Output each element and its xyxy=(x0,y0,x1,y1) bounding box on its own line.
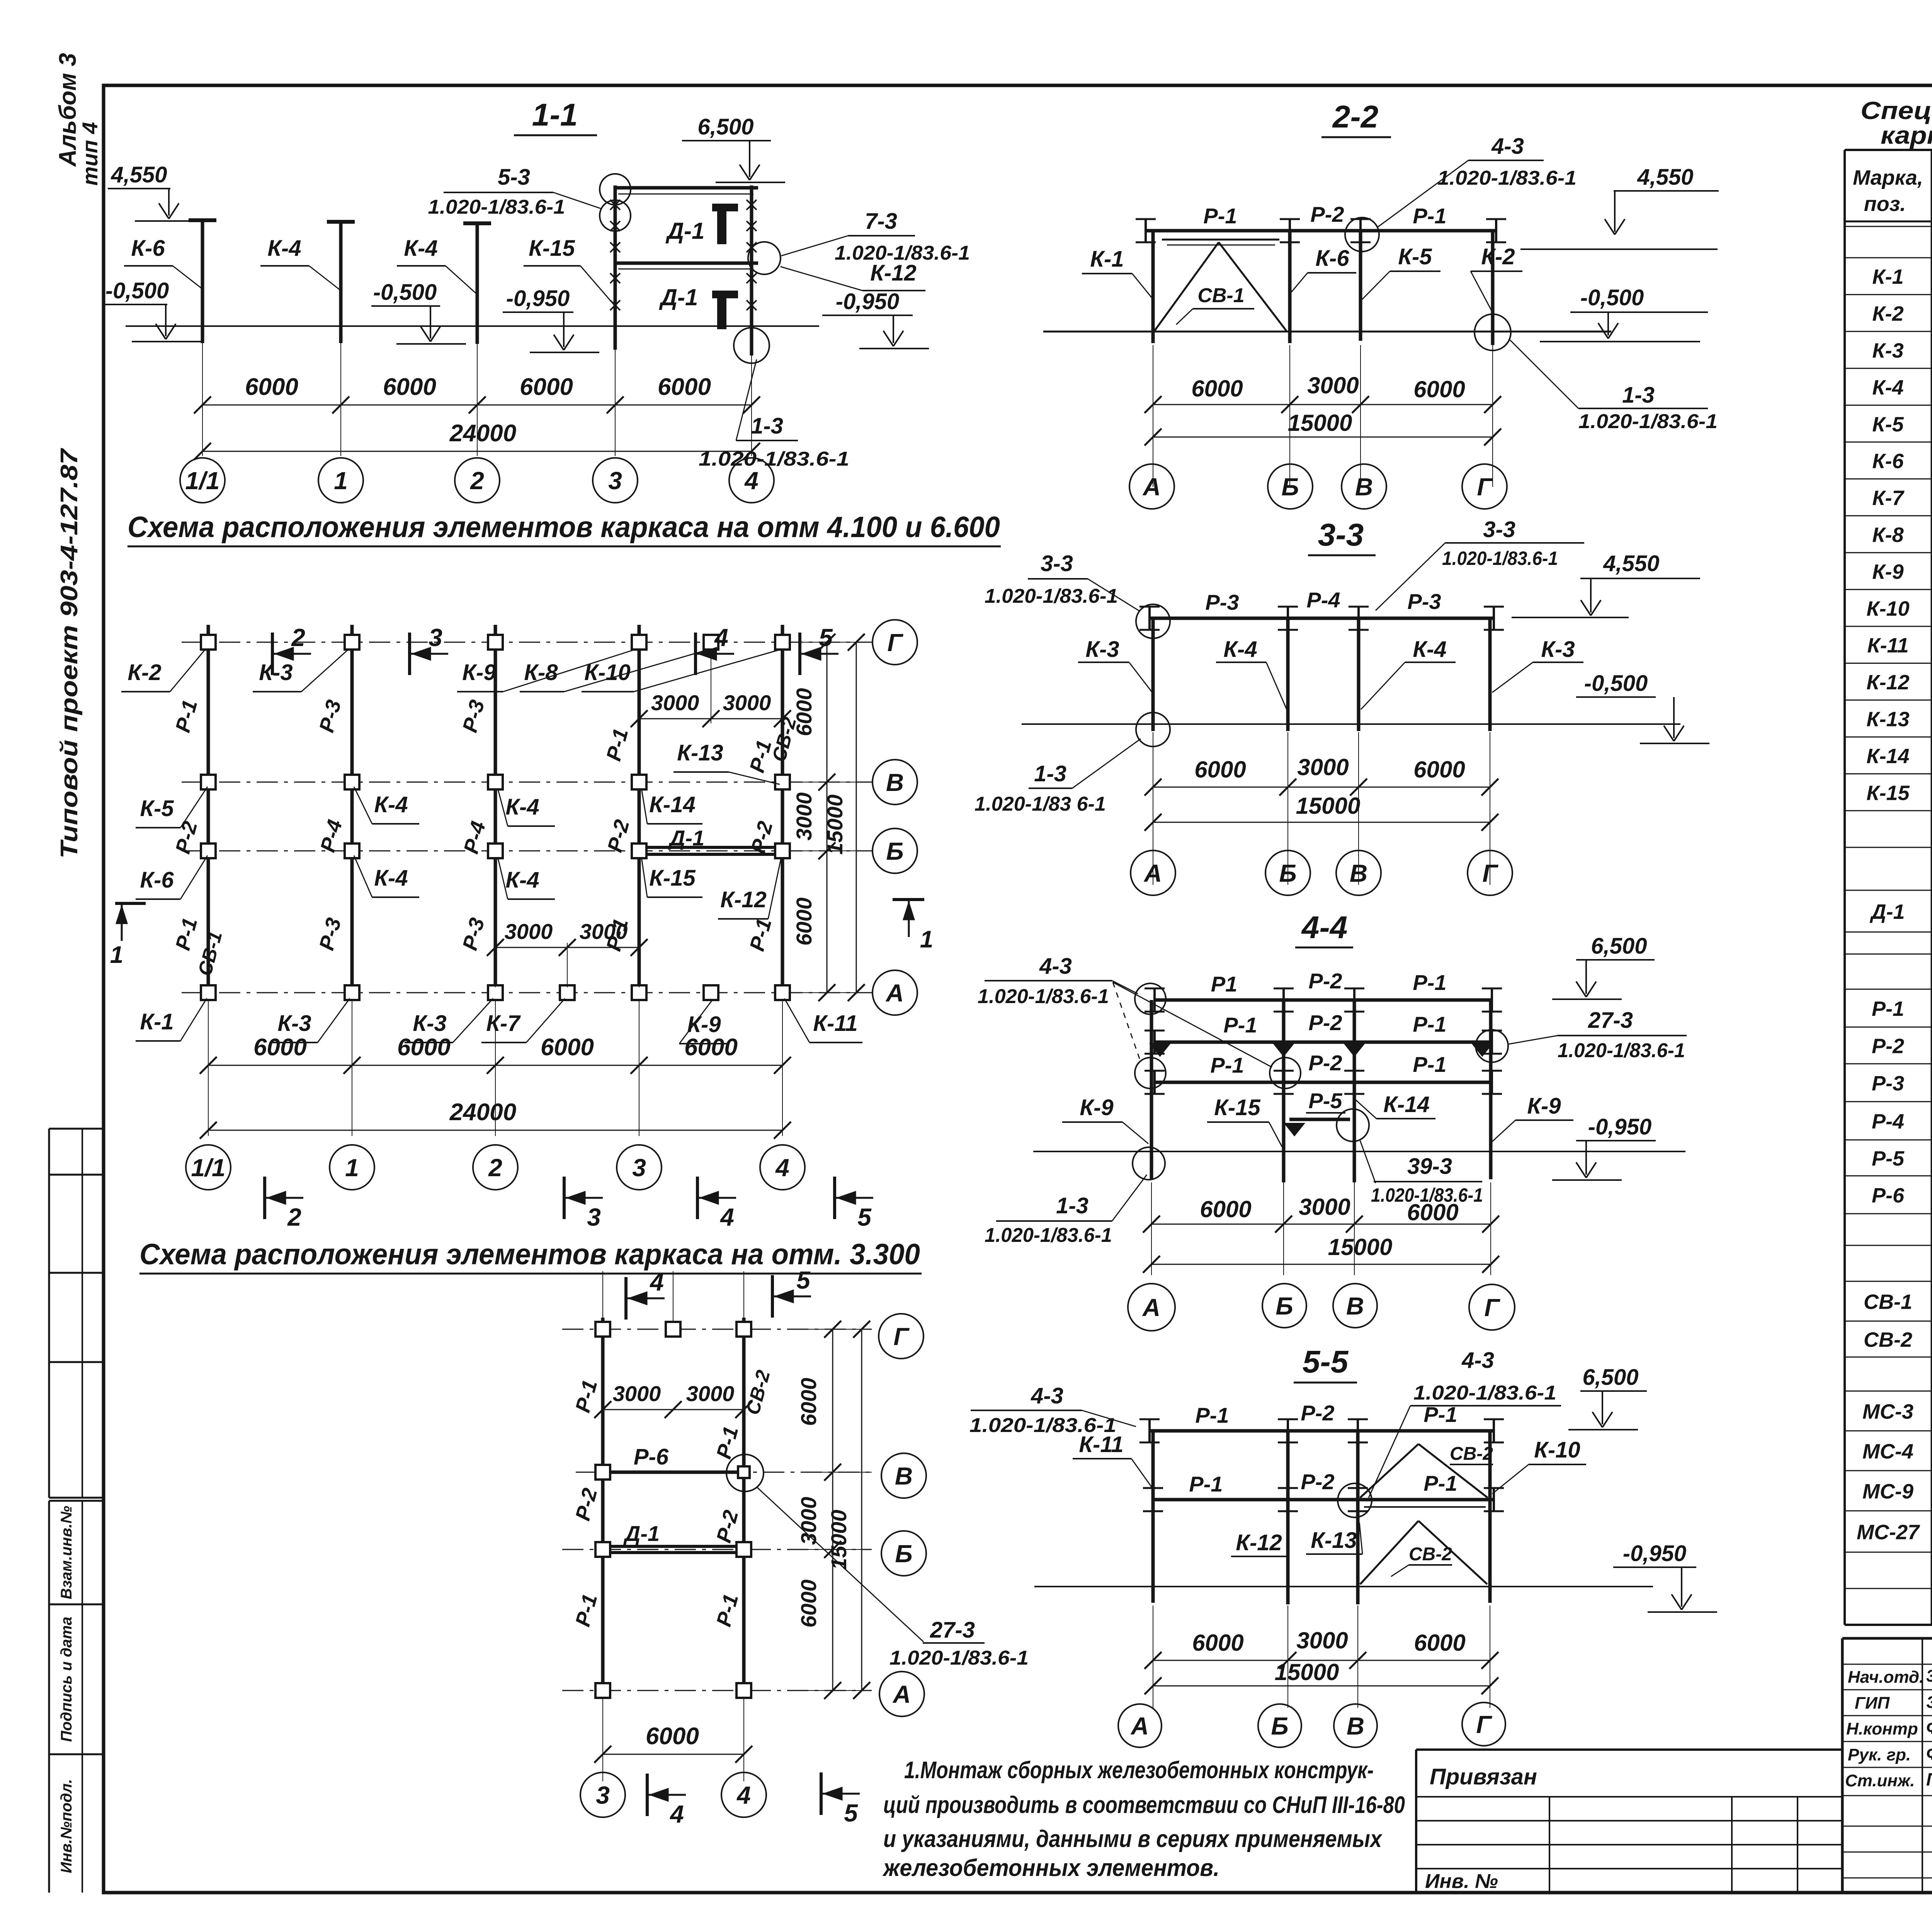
section 4-4 column V (K-14) xyxy=(1353,1000,1356,1182)
section 3-3 circle at A bottom xyxy=(1136,713,1170,747)
svg-text:Р-2: Р-2 xyxy=(1308,969,1342,993)
svg-text:1: 1 xyxy=(920,926,933,953)
svg-text:Ст.инж.: Ст.инж. xyxy=(1845,1771,1915,1790)
section 1-1 lattice marks col 3 xyxy=(610,200,620,210)
svg-text:К-3: К-3 xyxy=(1541,637,1575,662)
svg-text:тип 4: тип 4 xyxy=(78,122,102,186)
spec table row line y=2753 xyxy=(1845,1063,1932,1065)
svg-text:-0,950: -0,950 xyxy=(1623,1541,1686,1566)
svg-text:-0,950: -0,950 xyxy=(506,286,570,311)
svg-text:Золотов: Золотов xyxy=(1926,1693,1932,1712)
svg-text:6000: 6000 xyxy=(1191,376,1243,401)
section 3-3 column V (K-4) xyxy=(1357,618,1361,731)
section 1-1 dimension extension lines xyxy=(202,332,203,456)
section 5-5 brace SV-2 lower xyxy=(1360,1521,1418,1584)
section 1-1 callout circle col4 mid xyxy=(748,242,781,274)
svg-text:К-14: К-14 xyxy=(649,792,695,817)
svg-text:Г: Г xyxy=(1477,473,1493,501)
svg-text:-0,950: -0,950 xyxy=(836,289,899,314)
section 1-1 dim line 24000 xyxy=(202,451,752,452)
svg-text:6000: 6000 xyxy=(796,1378,821,1426)
svg-text:3000: 3000 xyxy=(613,1381,661,1406)
svg-text:Подпись и дата: Подпись и дата xyxy=(58,1617,75,1742)
svg-text:К-12: К-12 xyxy=(1866,671,1909,694)
section 2-2 sub line span A-B xyxy=(1162,239,1279,241)
title block signature columns xyxy=(1922,1638,1923,1893)
svg-text:27-3: 27-3 xyxy=(1588,1008,1633,1033)
svg-text:4,550: 4,550 xyxy=(1603,551,1659,576)
svg-text:К-4: К-4 xyxy=(1223,637,1257,662)
svg-text:Б: Б xyxy=(1279,859,1296,887)
spec table row line y=2193 xyxy=(1845,847,1932,848)
svg-text:Д-1: Д-1 xyxy=(668,826,704,850)
svg-text:1-3: 1-3 xyxy=(1034,761,1066,786)
plan 4.100 bottom dim extension lines xyxy=(208,1001,209,1136)
svg-text:3000: 3000 xyxy=(1299,1194,1350,1220)
svg-text:4: 4 xyxy=(775,1154,789,1182)
section 1-1 axis bubble 2 xyxy=(455,458,500,503)
svg-text:Фролова: Фролова xyxy=(1926,1743,1932,1764)
svg-text:1-3: 1-3 xyxy=(1622,383,1655,408)
svg-text:4: 4 xyxy=(736,1781,751,1809)
svg-text:К-10: К-10 xyxy=(1534,1437,1580,1463)
spec table row line y=1716 xyxy=(1845,663,1932,664)
svg-text:6000: 6000 xyxy=(684,1034,738,1061)
svg-text:Р-1: Р-1 xyxy=(1872,997,1904,1020)
svg-text:К-13: К-13 xyxy=(1311,1528,1357,1553)
spec table row line y=762 xyxy=(1845,294,1932,295)
plan 4.100 axis line G xyxy=(182,642,872,643)
section 5-5 axis bubbles xyxy=(1118,1704,1162,1747)
svg-text:1.020-1/83.6-1: 1.020-1/83.6-1 xyxy=(978,985,1109,1008)
svg-text:К-3: К-3 xyxy=(259,660,293,685)
spec table row line y=1334 xyxy=(1845,515,1932,516)
svg-text:К-14: К-14 xyxy=(1866,745,1909,768)
svg-text:А: А xyxy=(892,1680,911,1708)
svg-text:Р-3: Р-3 xyxy=(1205,590,1239,614)
svg-text:К-15: К-15 xyxy=(1866,781,1910,804)
svg-text:1: 1 xyxy=(110,942,123,968)
svg-text:4: 4 xyxy=(719,1203,734,1231)
svg-text:Р-1: Р-1 xyxy=(1423,1402,1457,1427)
section 1-1 axis bubble 4 xyxy=(729,458,774,503)
svg-text:СВ-2: СВ-2 xyxy=(1409,1544,1452,1565)
svg-text:3000: 3000 xyxy=(723,690,771,715)
svg-text:К-1: К-1 xyxy=(1090,247,1124,272)
spec table row line y=1525 xyxy=(1845,589,1932,590)
margin stamp table lower xyxy=(49,1500,104,1502)
svg-text:Инв.№подл.: Инв.№подл. xyxy=(58,1779,75,1873)
svg-text:К-1: К-1 xyxy=(1872,265,1903,289)
section 1-1 console mark lower xyxy=(717,291,726,329)
spec table row line y=4017 xyxy=(1845,1552,1932,1553)
svg-text:6,500: 6,500 xyxy=(1591,934,1647,959)
svg-text:Б: Б xyxy=(886,837,903,865)
svg-text:6000: 6000 xyxy=(646,1723,699,1750)
plan 3.300 beam R-6 xyxy=(603,1471,744,1474)
plan 4.100 right axis bubble G xyxy=(872,620,917,665)
section 5-5 sub line span V-G xyxy=(1364,1506,1486,1508)
spec table row line y=1811 xyxy=(1845,699,1932,701)
svg-text:4,550: 4,550 xyxy=(1637,165,1693,190)
svg-text:К-15: К-15 xyxy=(1214,1095,1260,1120)
svg-text:Захаревский: Захаревский xyxy=(1926,1667,1932,1685)
svg-text:К-4: К-4 xyxy=(1872,376,1903,399)
section 4-4 dim line 15000 xyxy=(1151,1264,1491,1265)
spec table row line y=2851 xyxy=(1845,1101,1932,1102)
plan 3.300 right dim 15000 xyxy=(861,1329,862,1690)
spec table row line y=1621 xyxy=(1845,626,1932,627)
svg-text:5-5: 5-5 xyxy=(1303,1344,1349,1379)
plan 3.300 bottom dim 6000 xyxy=(602,1698,603,1781)
svg-text:6000: 6000 xyxy=(383,374,436,400)
svg-text:Р1: Р1 xyxy=(1211,972,1238,996)
plan 3.300 top section flag 5 xyxy=(771,1275,774,1318)
plan 3.300 bottom section flag 5 xyxy=(820,1772,823,1815)
svg-text:В: В xyxy=(1350,859,1367,887)
svg-text:3-3: 3-3 xyxy=(1041,551,1073,576)
svg-text:Д-1: Д-1 xyxy=(659,284,698,310)
section 5-5 mid beam xyxy=(1153,1498,1494,1502)
svg-text:К-11: К-11 xyxy=(813,1011,857,1036)
plan 4.100 dim 3000+3000 top right xyxy=(639,648,639,723)
section 5-5 dim line 6000/3000/6000 xyxy=(1153,1660,1490,1661)
spec table row line y=3316 xyxy=(1845,1281,1932,1282)
svg-text:15000: 15000 xyxy=(1275,1659,1339,1685)
section 2-2 column A (K-1) xyxy=(1151,231,1155,343)
section 2-2 column G (K-2) xyxy=(1491,231,1495,345)
svg-text:Пугачева: Пугачева xyxy=(1926,1769,1932,1789)
svg-text:К-8: К-8 xyxy=(1872,524,1903,547)
svg-text:К-4: К-4 xyxy=(374,792,408,817)
plan 3.300 axis bubble 3 xyxy=(580,1772,625,1817)
section 3-3 column A (K-3) xyxy=(1151,618,1155,731)
svg-text:К-4: К-4 xyxy=(505,794,539,820)
svg-text:К-10: К-10 xyxy=(1866,597,1909,620)
svg-text:Г: Г xyxy=(893,1323,910,1350)
section 2-2 dim line 15000 xyxy=(1153,437,1493,438)
section 4-4 circle on column V xyxy=(1337,1109,1369,1141)
svg-text:1: 1 xyxy=(345,1154,359,1182)
section 2-2 beam end marks xyxy=(1145,219,1147,242)
section 2-2 column V (K-5) xyxy=(1359,231,1362,341)
svg-text:5: 5 xyxy=(857,1203,872,1231)
svg-text:6000: 6000 xyxy=(796,1580,821,1628)
svg-text:3: 3 xyxy=(429,624,442,651)
svg-text:27-3: 27-3 xyxy=(930,1617,975,1643)
plan 4.100 beam line on axis 4 xyxy=(781,625,784,1000)
svg-text:Р-4: Р-4 xyxy=(1872,1110,1904,1133)
section 2-2 top beam xyxy=(1146,229,1496,233)
section 4-4 circles on column A xyxy=(1135,983,1166,1014)
plan 4.100 bottom axis bubbles xyxy=(186,1145,231,1190)
svg-text:Г: Г xyxy=(887,629,903,656)
svg-text:К-10: К-10 xyxy=(584,660,630,685)
plan 4.100 axis line B xyxy=(182,850,872,852)
svg-text:Д-1: Д-1 xyxy=(665,218,705,244)
svg-text:4: 4 xyxy=(714,624,728,651)
svg-text:А: А xyxy=(1142,1294,1160,1321)
svg-text:Н.контр: Н.контр xyxy=(1846,1719,1918,1738)
svg-text:Р-6: Р-6 xyxy=(634,1444,669,1469)
svg-text:4-3: 4-3 xyxy=(1461,1348,1494,1373)
svg-text:Г: Г xyxy=(1482,859,1498,887)
svg-text:5-3: 5-3 xyxy=(498,165,530,190)
svg-text:6000: 6000 xyxy=(1407,1199,1458,1225)
svg-text:В: В xyxy=(886,769,904,796)
section 3-3 circle at A top xyxy=(1136,604,1170,638)
svg-text:К-13: К-13 xyxy=(1866,708,1909,731)
spec table row line y=4111 xyxy=(1845,1588,1932,1589)
svg-text:24000: 24000 xyxy=(449,1099,516,1126)
svg-text:А: А xyxy=(885,979,904,1007)
spec table row line y=2098 xyxy=(1845,810,1932,811)
section 4-4 circle on column B mid xyxy=(1270,1058,1301,1088)
svg-text:-0,500: -0,500 xyxy=(1584,671,1648,696)
spec table row line y=3223 xyxy=(1845,1245,1932,1246)
plan 3.300 bottom section flag 4 xyxy=(646,1774,649,1816)
svg-text:К-4: К-4 xyxy=(374,866,408,891)
svg-text:1.020-1/83.6-1: 1.020-1/83.6-1 xyxy=(985,585,1118,607)
svg-text:6,500: 6,500 xyxy=(1582,1365,1638,1390)
svg-text:Б: Б xyxy=(1276,1292,1293,1320)
svg-text:3: 3 xyxy=(608,467,622,495)
svg-text:К-4: К-4 xyxy=(1413,637,1446,662)
section 2-2 dim line 6000/3000/6000 xyxy=(1153,404,1493,405)
svg-text:-0,500: -0,500 xyxy=(373,280,437,305)
svg-text:Р-4: Р-4 xyxy=(1306,588,1340,612)
svg-text:4: 4 xyxy=(649,1268,664,1296)
svg-text:Р-6: Р-6 xyxy=(1872,1184,1905,1207)
svg-text:К-5: К-5 xyxy=(1872,413,1904,436)
svg-text:Взам.инв.№: Взам.инв.№ xyxy=(58,1506,75,1599)
section 5-5 column V (K-13) xyxy=(1356,1431,1360,1604)
svg-text:4-3: 4-3 xyxy=(1491,134,1524,159)
section 1-1 lattice marks col 4 xyxy=(747,200,757,210)
svg-text:А: А xyxy=(1143,859,1162,887)
plan 4.100 top section flag 5 xyxy=(798,633,801,675)
plan 4.100 section flag 1 left xyxy=(115,902,146,905)
plan 3.300 right axis bubble A xyxy=(879,1672,924,1716)
plan 4.100 bottom section flag 2 xyxy=(263,1177,266,1219)
svg-text:В: В xyxy=(1355,473,1373,501)
svg-text:Нач.отд.: Нач.отд. xyxy=(1848,1668,1924,1687)
plan 3.300 top dim 3000+3000 xyxy=(602,1271,603,1321)
plan 4.100 bottom section flag 3 xyxy=(563,1177,566,1219)
plan 4.100 axis line V xyxy=(182,782,872,783)
svg-text:Д-1: Д-1 xyxy=(623,1521,660,1546)
svg-text:К-9: К-9 xyxy=(1080,1095,1113,1120)
section 4-4 circle on column G xyxy=(1476,1030,1508,1062)
plan 4.100 top section flag 4 xyxy=(694,633,697,675)
svg-text:ций производить в соответствии: ций производить в соответствии со СНиП I… xyxy=(883,1792,1405,1818)
svg-text:Р-2: Р-2 xyxy=(1308,1051,1342,1075)
spec table row line y=3419 xyxy=(1845,1321,1932,1322)
svg-text:Г: Г xyxy=(1476,1711,1492,1738)
section 1-1 column 1 (K-4) xyxy=(339,223,343,343)
svg-text:поз.: поз. xyxy=(1864,192,1906,216)
svg-text:Фролова: Фролова xyxy=(1926,1718,1932,1738)
section 2-2 axis bubbles xyxy=(1129,464,1174,509)
section 5-5 brace SV-2 upper xyxy=(1360,1444,1418,1498)
svg-text:6000: 6000 xyxy=(1192,1630,1243,1656)
svg-text:В: В xyxy=(895,1462,913,1490)
svg-text:К-1: К-1 xyxy=(140,1009,173,1034)
svg-text:6000: 6000 xyxy=(792,898,816,946)
spec table row line y=3043 xyxy=(1845,1175,1932,1177)
svg-text:6000: 6000 xyxy=(520,374,573,400)
plan 4.100 right axis bubble A xyxy=(872,970,917,1015)
svg-text:Б: Б xyxy=(1281,473,1299,501)
svg-text:3000: 3000 xyxy=(796,1497,821,1545)
svg-text:15000: 15000 xyxy=(1328,1234,1393,1260)
section 4-4 console triangles level2 xyxy=(1151,1044,1169,1056)
section 1-1 column 2 (K-4) xyxy=(476,225,479,344)
spec table row line y=3910 xyxy=(1845,1510,1932,1512)
svg-text:7-3: 7-3 xyxy=(865,209,897,234)
svg-text:железобетонных элементов.: железобетонных элементов. xyxy=(882,1855,1219,1881)
svg-text:15000: 15000 xyxy=(827,1510,851,1570)
svg-text:6000: 6000 xyxy=(792,688,816,736)
svg-text:-0,950: -0,950 xyxy=(1588,1114,1651,1139)
svg-text:К-9: К-9 xyxy=(1872,560,1903,583)
section 1-1 dim line 6000x4 xyxy=(202,405,752,406)
svg-text:3000: 3000 xyxy=(1297,754,1349,780)
svg-text:МС-4: МС-4 xyxy=(1862,1440,1913,1463)
spec table column lines xyxy=(1931,150,1932,1625)
spec table row line y=2658 xyxy=(1845,1027,1932,1028)
svg-text:Г: Г xyxy=(1484,1294,1500,1321)
svg-text:Р-1: Р-1 xyxy=(1223,1013,1257,1037)
plan 4.100 bottom dim 24000 xyxy=(208,1130,782,1131)
spec table row line y=3703 xyxy=(1845,1430,1932,1432)
plan 3.300 circle callout at 4/V xyxy=(726,1454,764,1492)
svg-text:и указаниями, данными в сериях: и указаниями, данными в сериях применяем… xyxy=(883,1826,1383,1852)
plan 4.100 section flag 1 right xyxy=(893,898,924,901)
svg-text:1/1: 1/1 xyxy=(191,1154,226,1182)
plan 3.300 diaphragm D-1 xyxy=(603,1545,744,1548)
plan 4.100 column squares xyxy=(201,635,216,650)
plan 3.300 beam line axis 3 xyxy=(601,1318,605,1696)
svg-text:К-15: К-15 xyxy=(529,236,575,261)
svg-text:6000: 6000 xyxy=(245,374,298,400)
plan 4.100 top section flag 3 xyxy=(408,633,411,675)
section 4-4 dim line 6000/3000/6000 xyxy=(1151,1224,1491,1225)
section 4-4 column G (K-9) xyxy=(1489,1000,1493,1179)
svg-text:Р-1: Р-1 xyxy=(1210,1053,1244,1077)
svg-text:6000: 6000 xyxy=(1194,757,1246,782)
spec table row line y=2002 xyxy=(1845,773,1932,774)
svg-text:Р-5: Р-5 xyxy=(1872,1147,1905,1170)
svg-text:Р-1: Р-1 xyxy=(1203,204,1237,228)
section 1-1 axis bubble 1 xyxy=(318,458,363,503)
svg-text:Б: Б xyxy=(1271,1712,1288,1740)
svg-text:2-2: 2-2 xyxy=(1332,99,1379,134)
svg-text:Б: Б xyxy=(895,1540,912,1568)
section 1-1 mid beam xyxy=(614,262,758,265)
section 4-4 beam level 3 xyxy=(1155,1081,1492,1084)
svg-text:6000: 6000 xyxy=(1413,757,1465,782)
svg-text:Р-2: Р-2 xyxy=(1301,1401,1334,1425)
section 1-1 callout circles col3 top xyxy=(600,174,631,205)
section 1-1 axis bubble 1/1 xyxy=(180,458,225,503)
section 5-5 ground line xyxy=(1034,1586,1653,1587)
svg-text:Р-3: Р-3 xyxy=(1407,589,1441,614)
section 4-4 top beam xyxy=(1155,998,1492,1002)
svg-text:Р-3: Р-3 xyxy=(1872,1072,1904,1095)
section 2-2 circle at V top xyxy=(1345,218,1379,252)
svg-text:В: В xyxy=(1347,1712,1364,1740)
svg-text:Р-1: Р-1 xyxy=(1195,1403,1229,1427)
plan 3.300 axis line V xyxy=(576,1472,872,1473)
svg-text:К-2: К-2 xyxy=(128,660,161,685)
svg-text:6,500: 6,500 xyxy=(697,114,753,139)
svg-text:15000: 15000 xyxy=(823,794,847,855)
plan 4.100 beam line on axis 1/1 xyxy=(207,625,210,1000)
svg-text:К-3: К-3 xyxy=(413,1011,446,1036)
spec table row line y=1048 xyxy=(1845,405,1932,406)
spec table header row line xyxy=(1845,221,1932,223)
svg-text:4,550: 4,550 xyxy=(111,162,167,187)
svg-text:каркаса, расположенным на д: каркаса, расположенным на данном листе xyxy=(1881,121,1932,149)
svg-text:Р-2: Р-2 xyxy=(1301,1469,1334,1494)
svg-text:6000: 6000 xyxy=(1200,1196,1251,1222)
plan 3.300 right dim 6000/3000/6000 xyxy=(832,1329,833,1690)
svg-text:1.020-1/83.6-1: 1.020-1/83.6-1 xyxy=(889,1647,1029,1669)
svg-text:24000: 24000 xyxy=(449,420,516,447)
svg-text:Рук. гр.: Рук. гр. xyxy=(1848,1745,1911,1764)
section 1-1 ground line xyxy=(126,325,819,327)
svg-text:3-3: 3-3 xyxy=(1483,517,1515,542)
svg-text:К-5: К-5 xyxy=(140,796,174,821)
section 4-4 column A (K-9) xyxy=(1150,1000,1153,1179)
svg-text:МС-9: МС-9 xyxy=(1862,1480,1913,1503)
svg-text:6000: 6000 xyxy=(658,374,711,400)
svg-text:15000: 15000 xyxy=(1288,410,1352,436)
svg-text:3000: 3000 xyxy=(1296,1628,1348,1653)
plan 3.300 axis line A xyxy=(562,1690,872,1691)
svg-text:К-6: К-6 xyxy=(131,236,165,261)
section 3-3 dim line 6000/3000/6000 xyxy=(1153,787,1490,788)
svg-text:К-6: К-6 xyxy=(1315,246,1349,271)
svg-text:6000: 6000 xyxy=(1414,1630,1465,1656)
section 4-4 beam level 2 xyxy=(1155,1041,1492,1044)
section 4-4 ground line xyxy=(1033,1151,1685,1152)
plan 4.100 beam line on axis 2 xyxy=(494,625,497,1000)
plan 4.100 beam line on axis 3 xyxy=(638,625,641,1000)
svg-text:1.020-1/83.6-1: 1.020-1/83.6-1 xyxy=(1437,167,1577,189)
spec table row line y=2469 xyxy=(1845,954,1932,955)
spec table row line y=857 xyxy=(1845,331,1932,332)
svg-text:1.020-1/83.6-1: 1.020-1/83.6-1 xyxy=(1578,410,1718,433)
svg-text:1.020-1/83.6-1: 1.020-1/83.6-1 xyxy=(1558,1039,1685,1062)
svg-text:4-4: 4-4 xyxy=(1301,910,1348,945)
margin stamp table upper xyxy=(49,1128,104,1130)
svg-text:ГИП: ГИП xyxy=(1855,1694,1890,1713)
frame border left xyxy=(102,84,105,1894)
plan 4.100 bottom dim 6000x4 xyxy=(208,1065,782,1066)
plan 3.300 axis line G xyxy=(562,1329,872,1330)
svg-text:Р-5: Р-5 xyxy=(1308,1088,1342,1113)
svg-text:3000: 3000 xyxy=(686,1381,735,1406)
svg-text:Р-1: Р-1 xyxy=(1423,1471,1457,1495)
svg-text:К-9: К-9 xyxy=(1527,1094,1561,1119)
section 4-4 dimension extension lines xyxy=(1151,1182,1152,1275)
plan 3.300 axis bubble 4 xyxy=(721,1772,766,1817)
svg-text:К-15: К-15 xyxy=(649,866,696,891)
plan 4.100 right dim 6000/3000/6000 xyxy=(827,642,828,993)
section 5-5 column A (K-11) xyxy=(1151,1431,1155,1603)
